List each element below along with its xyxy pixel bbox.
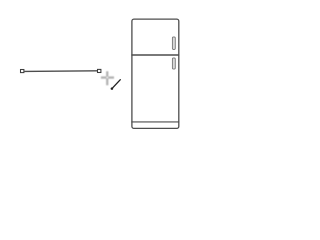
refrigerator freezer divider	[131, 54, 179, 56]
cursor pencil	[112, 80, 120, 89]
freezer door handle	[172, 37, 175, 50]
refrigerator body	[132, 19, 179, 128]
node A (left endpoint handle)	[21, 70, 24, 73]
cursor crosshair	[101, 71, 114, 85]
refrigerator base line	[131, 121, 179, 123]
node B (right endpoint handle)	[98, 69, 101, 72]
fridge door handle	[172, 58, 175, 69]
wire	[25, 70, 98, 73]
